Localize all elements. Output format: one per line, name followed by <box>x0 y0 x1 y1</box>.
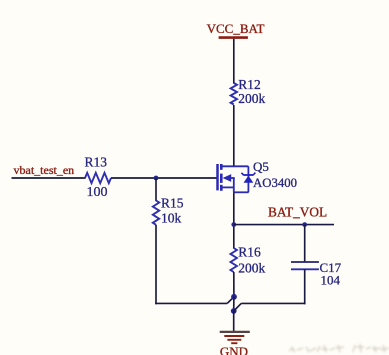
svg-text:R16: R16 <box>238 245 261 260</box>
svg-text:200k: 200k <box>238 260 265 275</box>
junction node C17 tap <box>302 222 307 227</box>
wire R12 to Q5 drain <box>233 105 235 166</box>
wire vbat_test_en to R13 <box>12 177 86 179</box>
wire VCC_BAT to R12 <box>233 39 235 84</box>
capacitor C17 <box>291 260 342 287</box>
wire node A to node B <box>233 297 235 311</box>
svg-text:vbat_test_en: vbat_test_en <box>14 163 75 177</box>
wire junction to R15 <box>155 178 157 201</box>
wire diagonal node B to right rail <box>234 303 242 311</box>
channel dash top <box>220 164 223 170</box>
svg-text:10k: 10k <box>161 210 182 225</box>
svg-text:R12: R12 <box>238 77 261 92</box>
wire R16 to node A <box>233 272 235 297</box>
svg-text:100: 100 <box>87 185 108 200</box>
body diode <box>244 176 254 183</box>
source lead <box>222 186 234 188</box>
wire bottom rail right <box>241 302 305 304</box>
wire R15 to bottom rail <box>155 225 157 304</box>
transistor Q5 AO3400 <box>218 159 298 192</box>
node A junction <box>231 294 237 300</box>
resistor R15 <box>153 196 184 226</box>
resistor R16 <box>231 245 266 276</box>
bulk arrow <box>223 174 232 182</box>
ground symbol <box>220 332 250 343</box>
wire GND stem <box>233 311 235 332</box>
svg-text:104: 104 <box>321 272 341 287</box>
svg-text:200k: 200k <box>238 91 265 106</box>
junction node at R15 tap <box>154 176 159 181</box>
wire C17 top lead <box>304 225 306 262</box>
junction node BAT_VOL tap <box>231 222 236 227</box>
wire diagonal to node A <box>227 297 234 304</box>
svg-text:R13: R13 <box>85 155 108 170</box>
symbol connector verticals/horizontals <box>233 178 235 192</box>
watermark <box>289 344 389 352</box>
svg-text:AO3400: AO3400 <box>253 176 297 190</box>
wire C17 bottom lead <box>304 269 306 304</box>
wire Q5 source down to node A <box>233 192 235 248</box>
node B junction <box>231 308 237 314</box>
svg-text:R15: R15 <box>161 196 184 211</box>
wire R13 to Q5 gate <box>111 177 218 179</box>
wire bottom rail left <box>155 302 227 304</box>
drain lead <box>222 165 248 167</box>
wire BAT_VOL rail <box>234 224 334 226</box>
resistor R13 <box>85 155 112 201</box>
channel dash middle <box>220 174 223 183</box>
svg-text:GND: GND <box>220 344 248 355</box>
resistor R12 <box>231 77 266 106</box>
power port VCC_BAT <box>207 21 265 37</box>
svg-text:BAT_VOL: BAT_VOL <box>268 205 327 220</box>
gate bar <box>216 164 219 190</box>
channel dash bottom <box>220 185 223 191</box>
svg-text:VCC_BAT: VCC_BAT <box>207 21 265 36</box>
svg-text:Q5: Q5 <box>253 159 269 174</box>
